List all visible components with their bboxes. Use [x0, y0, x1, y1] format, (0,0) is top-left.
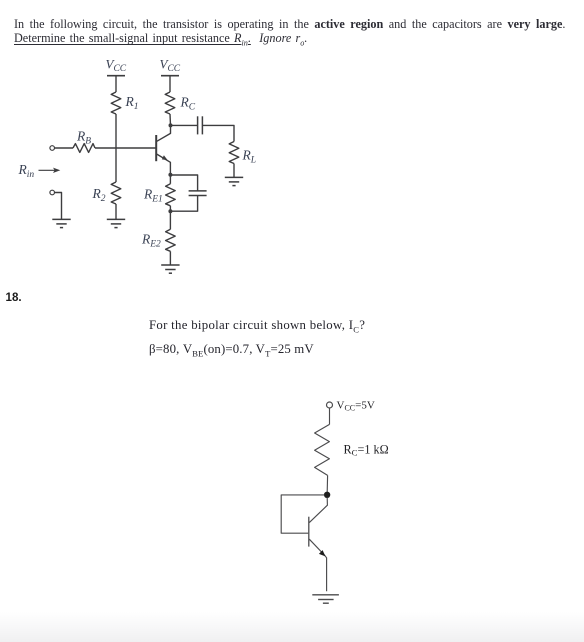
svg-text:VCC: VCC [106, 57, 127, 75]
question number 18 [6, 291, 22, 304]
wire emitter node to RE1 [169, 175, 171, 184]
wire input terminal to RB [55, 147, 73, 149]
feedback wire collector to base [281, 495, 324, 533]
svg-text:RL: RL [242, 148, 257, 166]
svg-text:VCC: VCC [160, 57, 181, 75]
emitter node dot [168, 173, 172, 177]
transistor Q1 base bar [155, 135, 157, 161]
collector node dot [324, 492, 330, 498]
svg-text:Rin: Rin [18, 162, 35, 180]
wire bypass cap to lower node [170, 196, 197, 212]
problem statement text [14, 18, 584, 50]
wire terminal to Rc [329, 408, 331, 424]
bottom gray gradient band [0, 612, 584, 642]
resistor RE1 [166, 184, 176, 206]
collector node dot [169, 123, 173, 127]
transistor Q2 collector lead [309, 498, 327, 523]
wire node to RE2 [169, 211, 171, 229]
svg-text:R2: R2 [92, 186, 106, 204]
circuit 1 labels [18, 57, 257, 250]
wire Rc to collector node [326, 475, 328, 492]
transistor Q1 collector lead [157, 125, 171, 141]
bypass capacitor C2 [189, 191, 207, 196]
transistor Q1 emitter arrow [162, 155, 168, 160]
svg-text:R1: R1 [125, 94, 139, 112]
wire lower terminal to ground [55, 193, 62, 220]
svg-text:RC: RC [180, 95, 196, 113]
wire R2 to ground [115, 204, 117, 219]
question 2 line 1 [149, 318, 365, 335]
wire RE2 to ground [169, 251, 171, 264]
wire R2 top [115, 148, 117, 182]
Vcc rail 1 bar [107, 75, 125, 77]
wire cap to RL [202, 125, 234, 141]
resistor RC [165, 92, 175, 114]
Vcc terminal circle [327, 402, 333, 408]
wire Vcc2 to RC [169, 76, 171, 92]
svg-text:RE1: RE1 [143, 187, 163, 205]
wire base node to transistor base [95, 147, 156, 149]
wire Vcc1 to R1 [115, 76, 117, 92]
resistor R2 [111, 182, 121, 204]
resistor RB [73, 144, 95, 153]
wire RL to ground [233, 164, 235, 178]
lower emitter node dot [168, 209, 172, 213]
circuit 2 labels [337, 400, 389, 458]
lower input terminal [50, 190, 55, 195]
resistor RL [229, 142, 239, 164]
transistor Q2 emitter lead [309, 539, 326, 591]
svg-text:RC=1 kΩ: RC=1 kΩ [344, 442, 389, 457]
resistor R1 [111, 92, 121, 114]
input terminal [50, 146, 55, 151]
resistor RE2 [166, 229, 176, 251]
wire R1 to base node [115, 114, 117, 148]
wire RC to collector node [169, 114, 172, 125]
transistor Q2 emitter arrow [319, 550, 326, 556]
Vcc rail 2 bar [161, 75, 179, 77]
wire emitter node to bypass cap [170, 175, 197, 191]
transistor Q2 base bar [308, 517, 310, 547]
resistor Rc [315, 424, 330, 475]
ground lower-left [52, 219, 70, 227]
wire RE1 to lower node [169, 206, 171, 211]
svg-text:VCC=5V: VCC=5V [337, 400, 375, 413]
Rin arrow [39, 169, 56, 171]
ground under R2 [107, 219, 125, 227]
ground circuit 2 [312, 595, 339, 603]
ground under RL [225, 177, 243, 185]
transistor Q1 emitter lead [157, 154, 171, 175]
svg-text:RE2: RE2 [141, 232, 161, 250]
coupling capacitor C1 [198, 116, 203, 134]
question 2 line 2 [149, 342, 314, 359]
ground under RE2 [161, 265, 179, 273]
wire collector node to coupling cap [171, 124, 198, 126]
